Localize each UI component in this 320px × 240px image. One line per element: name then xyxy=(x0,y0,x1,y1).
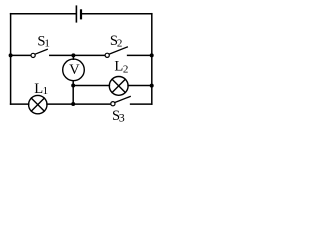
wire row2 middle S1 to S2 xyxy=(50,54,105,56)
voltmeter U1 stem top xyxy=(72,55,74,59)
junction node right rail / row2 xyxy=(150,53,154,57)
wire row4 S3 to right rail xyxy=(131,103,152,105)
svg-text:S2: S2 xyxy=(110,33,122,50)
battery cell long plate (+) xyxy=(75,6,77,22)
wire row4 lamp L1 to S3 xyxy=(47,103,111,105)
switch S3 contact circle xyxy=(111,102,115,106)
junction node left rail / row2 xyxy=(9,53,13,57)
voltmeter U1 stem bottom to row4 xyxy=(72,81,74,104)
junction node voltmeter bottom / row3 xyxy=(71,84,75,88)
wire row3 lamp L2 to right rail xyxy=(128,85,152,87)
lamp L2 xyxy=(109,77,128,96)
junction node voltmeter stem / row4 xyxy=(71,102,75,106)
switch S1 blade xyxy=(35,49,47,54)
svg-text:L2: L2 xyxy=(114,58,128,75)
voltmeter U1 circle xyxy=(63,59,85,81)
wire top-right from battery to right rail xyxy=(82,13,152,15)
wire row3 from voltmeter stem to lamp L2 xyxy=(73,85,109,87)
switch S2 blade xyxy=(109,47,127,54)
wire left rail xyxy=(10,14,12,104)
wire row4 left rail to lamp L1 xyxy=(11,103,29,105)
wire top-left from battery to left rail xyxy=(11,13,76,15)
svg-text:S3: S3 xyxy=(112,108,125,124)
svg-text:S1: S1 xyxy=(37,33,49,49)
junction node right rail / row3 xyxy=(150,84,154,88)
switch S1 contact circle xyxy=(31,53,35,57)
svg-text:V: V xyxy=(69,62,80,78)
svg-text:L1: L1 xyxy=(34,81,48,97)
wire right rail xyxy=(151,14,153,104)
switch S3 blade xyxy=(115,97,130,103)
battery cell short plate (-) xyxy=(80,10,82,18)
wire row2 left to S1 xyxy=(11,54,31,56)
switch S2 contact circle xyxy=(105,53,109,57)
wire row2 right S2 to right rail xyxy=(128,54,152,56)
junction node voltmeter top / row2 xyxy=(71,53,75,57)
lamp L1 xyxy=(29,95,47,113)
